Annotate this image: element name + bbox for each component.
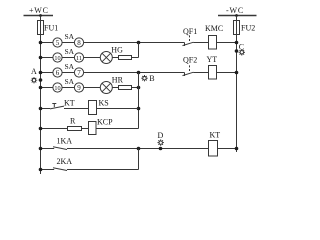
svg-text:D: D bbox=[158, 131, 164, 140]
wire node B vertical bbox=[138, 73, 140, 129]
contact SA 6 bbox=[53, 68, 62, 77]
svg-text:7: 7 bbox=[77, 69, 81, 77]
svg-text:QF2: QF2 bbox=[183, 56, 197, 65]
svg-text:10: 10 bbox=[54, 85, 60, 92]
wire row3 to QF2 bbox=[84, 72, 185, 74]
svg-text:8: 8 bbox=[77, 39, 81, 47]
lamp HG bbox=[100, 52, 112, 64]
wire row1 to QF1 bbox=[84, 42, 185, 44]
fuse FU1 bbox=[38, 21, 44, 35]
fuse FU2 bbox=[234, 21, 240, 35]
node row4 tap bbox=[39, 86, 43, 90]
wire row3 mid bbox=[62, 72, 74, 74]
node row1 tap bbox=[39, 41, 43, 45]
wire row2 left bbox=[41, 57, 53, 59]
svg-text:SA: SA bbox=[65, 32, 75, 41]
svg-text:A: A bbox=[31, 67, 37, 76]
node row3 right bus bbox=[235, 71, 239, 75]
node row1 HG join bbox=[137, 41, 141, 45]
node row5 join bbox=[137, 107, 141, 111]
svg-text:QF1: QF1 bbox=[183, 27, 197, 36]
contact SA 10 bbox=[53, 53, 62, 62]
wire row2 mid bbox=[62, 57, 74, 59]
svg-text:FU1: FU1 bbox=[44, 24, 58, 33]
wire lamp-resistor bbox=[112, 87, 118, 89]
node row3 tap bbox=[39, 71, 43, 75]
star mark node B bbox=[141, 75, 147, 81]
wire row7 KT-bus bbox=[218, 148, 237, 150]
wire row3 left bbox=[41, 72, 53, 74]
node row2 tap bbox=[39, 56, 43, 60]
node -WC junction bbox=[235, 14, 238, 17]
wire left bus vertical bbox=[40, 16, 42, 175]
wire row8 left bbox=[41, 169, 55, 171]
node row8 tap bbox=[39, 168, 43, 172]
node row5 tap bbox=[39, 107, 43, 111]
wire row6 KCP-corner bbox=[96, 128, 139, 130]
wire row2 to lamp bbox=[84, 57, 101, 59]
wire row6 left bbox=[41, 128, 68, 130]
svg-text:1KA: 1KA bbox=[57, 137, 73, 146]
node row4 join bbox=[137, 86, 141, 90]
wire row7 to KT coil bbox=[67, 148, 209, 150]
wire 2KA branch vertical bbox=[138, 149, 140, 170]
wire row7 left bbox=[41, 148, 55, 150]
contact 1KA bbox=[53, 147, 67, 150]
node C bbox=[235, 49, 239, 53]
svg-text:KCP: KCP bbox=[97, 118, 113, 127]
svg-text:KMC: KMC bbox=[205, 24, 223, 33]
svg-text:10: 10 bbox=[54, 55, 60, 62]
svg-text:SA: SA bbox=[65, 77, 75, 86]
node B junction bbox=[137, 71, 141, 75]
node row7 right bus bbox=[235, 147, 239, 151]
wire row5 left bbox=[41, 108, 51, 110]
star mark node A bbox=[31, 77, 37, 83]
contact QF2 bbox=[184, 73, 186, 77]
bus +WC bar bbox=[24, 15, 54, 17]
node row6 tap bbox=[39, 127, 43, 131]
wire row4 mid bbox=[62, 87, 74, 89]
wire row1 KMC-bus bbox=[217, 42, 237, 44]
wire row1 QF1-KMC bbox=[194, 42, 209, 44]
node row7 tap bbox=[39, 147, 43, 151]
wire HG branch vertical bbox=[138, 43, 140, 58]
contact KT delayed bbox=[50, 106, 64, 109]
resistor R bbox=[68, 127, 82, 131]
svg-text:6: 6 bbox=[56, 69, 60, 77]
resistor HR dropping bbox=[119, 86, 132, 90]
bus -WC bar bbox=[218, 15, 257, 17]
contact SA 9 bbox=[74, 83, 83, 92]
contact SA 7 bbox=[74, 68, 83, 77]
node row1 right bus bbox=[235, 41, 239, 45]
svg-text:-WC: -WC bbox=[226, 6, 244, 15]
svg-text:SA: SA bbox=[65, 47, 75, 56]
contact QF1 bbox=[184, 43, 186, 47]
resistor HG dropping bbox=[119, 56, 132, 60]
coil KT bbox=[209, 141, 218, 157]
svg-text:B: B bbox=[149, 74, 154, 83]
contact SA 11 bbox=[74, 53, 83, 62]
wire R-KCP bbox=[82, 128, 89, 130]
svg-text:KS: KS bbox=[99, 99, 109, 108]
contact SA 8 bbox=[74, 38, 83, 47]
svg-text:HG: HG bbox=[111, 46, 123, 55]
wire right bus vertical bbox=[236, 16, 238, 153]
svg-text:FU2: FU2 bbox=[241, 24, 255, 33]
contact SA 10b bbox=[53, 83, 62, 92]
wire resistor-corner bbox=[132, 57, 139, 59]
svg-text:+WC: +WC bbox=[29, 6, 49, 15]
lamp HR bbox=[100, 82, 112, 94]
svg-text:KT: KT bbox=[64, 99, 75, 108]
svg-text:SA: SA bbox=[65, 62, 75, 71]
coil KS bbox=[89, 101, 97, 115]
node D bbox=[159, 147, 163, 151]
svg-text:YT: YT bbox=[207, 55, 218, 64]
wire row4 to lamp bbox=[84, 87, 101, 89]
wire row5 KS-vertical bbox=[97, 108, 139, 110]
star mark node C bbox=[239, 49, 245, 55]
svg-text:9: 9 bbox=[77, 84, 81, 92]
star mark node D bbox=[158, 139, 164, 145]
wire row3 YT-bus bbox=[217, 72, 237, 74]
svg-text:HR: HR bbox=[112, 76, 124, 85]
wire row4 left bbox=[41, 87, 53, 89]
wire row1 mid bbox=[62, 42, 74, 44]
wire row5 to KS bbox=[64, 108, 89, 110]
svg-text:2KA: 2KA bbox=[57, 157, 73, 166]
svg-text:11: 11 bbox=[76, 55, 82, 62]
wire lamp-resistor bbox=[112, 57, 118, 59]
contact 2KA bbox=[53, 168, 67, 171]
node 2KA join bbox=[137, 147, 141, 151]
node +WC junction bbox=[39, 14, 42, 17]
wire row8 to vertical bbox=[67, 169, 139, 171]
node A bbox=[39, 78, 43, 82]
svg-text:KT: KT bbox=[210, 131, 221, 140]
contact SA 5 bbox=[53, 38, 62, 47]
coil YT bbox=[209, 66, 217, 80]
wire row3 QF2-YT bbox=[194, 72, 209, 74]
coil KCP bbox=[89, 122, 97, 135]
svg-text:R: R bbox=[70, 117, 76, 126]
svg-text:5: 5 bbox=[56, 39, 60, 47]
wire resistor-vertical bbox=[132, 87, 139, 89]
coil KMC bbox=[209, 36, 217, 50]
wire row1 left bbox=[41, 42, 53, 44]
